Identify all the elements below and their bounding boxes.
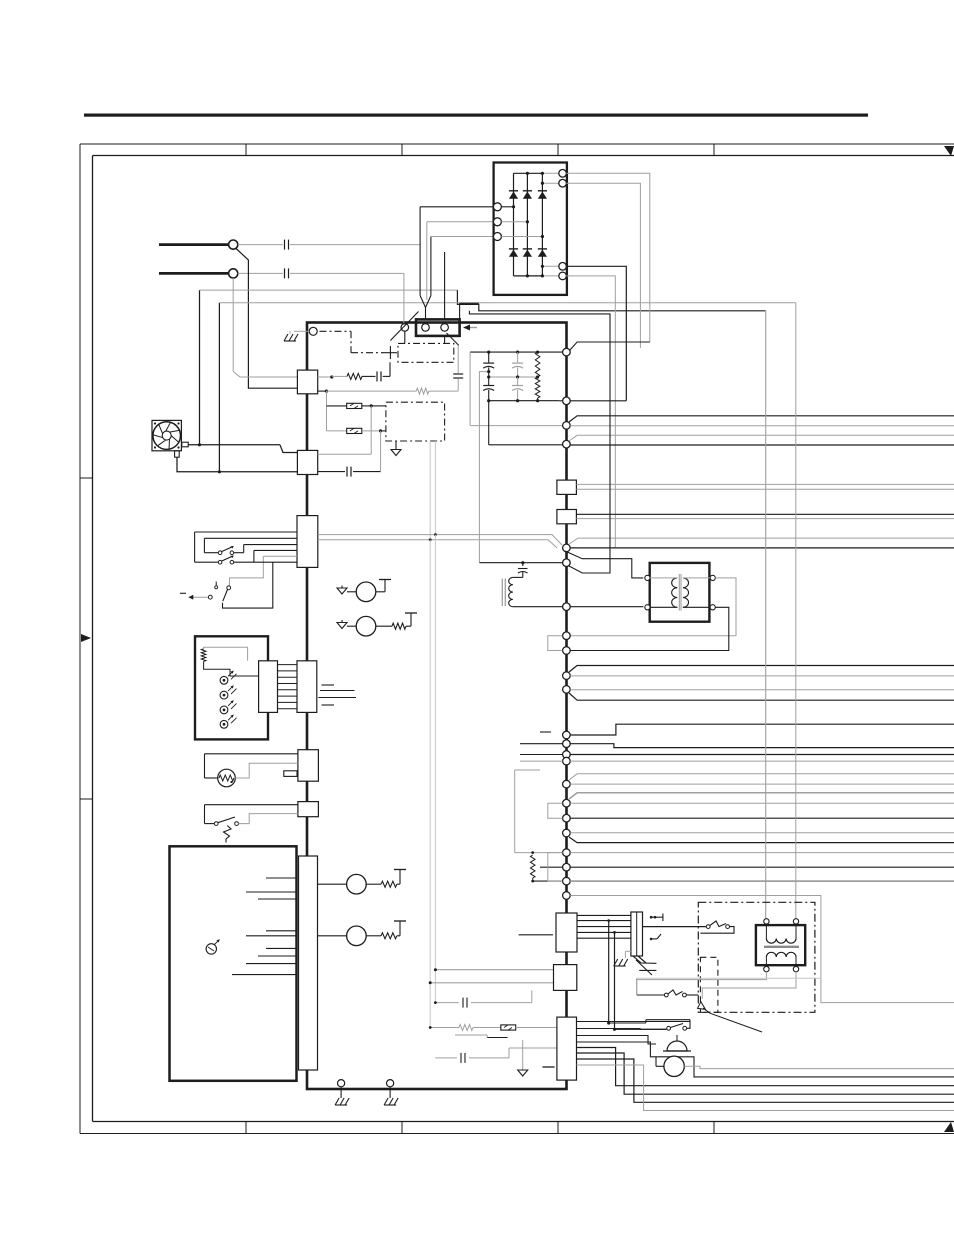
wire AC2 drop to relay bbox=[403, 273, 405, 323]
diode D1 bbox=[509, 191, 518, 199]
T5002 pin1 bbox=[645, 575, 677, 580]
wire P2 loop bbox=[570, 400, 626, 402]
border tick bottom bbox=[245, 1122, 247, 1134]
wire P3a bbox=[569, 416, 954, 422]
dashed box RL drive bbox=[398, 343, 454, 362]
wire M4 right bbox=[366, 921, 406, 939]
resistor R5001 bbox=[535, 352, 540, 377]
pin P19 bbox=[563, 829, 571, 837]
wire buzz feed bbox=[577, 1036, 657, 1045]
wire P5b bbox=[570, 547, 954, 549]
fan corner screws bbox=[154, 422, 180, 448]
border tick top bbox=[245, 144, 247, 156]
wire P19a bbox=[570, 832, 954, 834]
wire M1 right bbox=[376, 580, 391, 592]
arrow relay actuate bbox=[463, 325, 477, 331]
wire S1a bbox=[576, 483, 954, 485]
relay RL5001 bbox=[416, 319, 460, 336]
wire B+ top rail bbox=[470, 351, 562, 354]
connector CN5004 bbox=[631, 912, 643, 956]
wire relay pin2 drop bbox=[445, 252, 459, 346]
bridge DC pin 1 bbox=[559, 170, 567, 178]
wire buzz top bbox=[609, 1020, 690, 1023]
wire bus B vertical bbox=[218, 303, 220, 472]
dash-dot box degauss bbox=[698, 902, 815, 1012]
wire AC1 right bbox=[238, 244, 421, 246]
switch S5001 bbox=[643, 921, 735, 933]
wire cn out2 bbox=[577, 1028, 667, 1031]
wire drop a bbox=[434, 535, 436, 1003]
wire sb2 bbox=[429, 981, 557, 984]
connector CN5005 bbox=[556, 913, 577, 952]
wire bus A step bbox=[457, 290, 765, 311]
T5001 pin4 bbox=[793, 957, 798, 972]
bridge AC pin 2 bbox=[493, 218, 529, 226]
capacitor C5005 bbox=[513, 563, 528, 578]
border tick bottom bbox=[401, 1122, 403, 1134]
wire T5001 out3 bbox=[637, 972, 767, 995]
capacitor C-AC1 bbox=[283, 239, 290, 250]
connector CN105 bbox=[298, 750, 319, 782]
wire relay coil drop bbox=[404, 331, 406, 343]
border arrow left bbox=[81, 634, 91, 642]
wire P1 loop bbox=[570, 342, 650, 350]
fan terminal bottom bbox=[175, 451, 180, 457]
wire P13 bbox=[570, 744, 954, 748]
motor M2 bbox=[356, 616, 376, 636]
wire bridge out4 bbox=[566, 276, 615, 548]
fusible resistor FR101 bbox=[327, 403, 386, 408]
T5001 secondary bbox=[766, 952, 796, 957]
wire P6 loop bbox=[469, 311, 610, 573]
diode D6 bbox=[538, 249, 547, 257]
wire bridge pin1 h bbox=[420, 206, 493, 208]
pin P18 bbox=[548, 803, 570, 822]
wire SSW top bbox=[205, 805, 298, 824]
wire AC2 right bbox=[238, 272, 404, 274]
wire feeder 2 bbox=[795, 303, 797, 922]
wire h2 bbox=[577, 1053, 954, 1094]
motor M1 bbox=[356, 582, 376, 602]
bridge bottom bar bbox=[514, 274, 559, 277]
CN5004 arm bbox=[636, 960, 656, 975]
cap bank mid bar bbox=[487, 375, 539, 378]
wire P4b bbox=[570, 444, 954, 446]
nc stub 3 bbox=[318, 697, 356, 699]
T5002 core bbox=[679, 574, 681, 611]
motor M3 bbox=[318, 874, 367, 894]
earth CN5004 bbox=[614, 951, 631, 966]
ground IC101 bbox=[391, 441, 401, 456]
wire sb6 bbox=[435, 1057, 457, 1059]
capacitor X cross bbox=[384, 346, 397, 359]
wire arrow stub bbox=[188, 595, 208, 600]
pin P4 bbox=[563, 440, 571, 448]
ground pin G1 bbox=[335, 1080, 349, 1105]
wire P14 bbox=[570, 754, 954, 756]
motor M4 bbox=[318, 926, 367, 946]
switch S5002 bbox=[637, 990, 699, 997]
wire P10a bbox=[569, 666, 954, 673]
border tick bottom bbox=[557, 1122, 559, 1134]
wire bridge pin wires down bbox=[420, 207, 431, 300]
wire CN103 link a bbox=[318, 533, 562, 545]
pin P14 bbox=[520, 751, 570, 759]
fan frame bbox=[152, 420, 181, 450]
wire P12 bbox=[570, 724, 954, 735]
wire S2a bbox=[576, 513, 954, 515]
connector CN5002 bbox=[554, 965, 577, 991]
pin P5 bbox=[563, 544, 571, 552]
nc stub 4 bbox=[322, 704, 335, 706]
T5002 pin2 bbox=[645, 605, 677, 610]
connector CN107 tall bbox=[299, 856, 318, 1070]
inductor L5001 bbox=[509, 577, 513, 606]
connector CN5003 bbox=[557, 1017, 577, 1080]
LED D104 bbox=[220, 715, 236, 728]
wire h1 bbox=[577, 1048, 954, 1086]
wire SSW out bbox=[238, 814, 298, 824]
bridge pin - h bbox=[541, 265, 559, 268]
wire swb row2 bbox=[204, 538, 297, 552]
square pad S1 bbox=[557, 480, 577, 494]
T5001 primary bbox=[766, 939, 796, 944]
motor M5 loop bbox=[577, 1042, 954, 1077]
stub plug a bbox=[650, 914, 663, 922]
wire sb5 bbox=[455, 1035, 508, 1038]
arrow plug into relay bbox=[420, 296, 431, 320]
capacitor C102 bbox=[453, 345, 463, 391]
pin P2 bbox=[559, 397, 570, 405]
wire P10b bbox=[570, 675, 954, 677]
pin bracket P8-P9 bbox=[548, 636, 563, 651]
wire bridge pin3 h bbox=[431, 236, 493, 238]
border arrow top-right bbox=[944, 146, 954, 156]
diode D4 bbox=[509, 249, 518, 257]
dash link from pin bbox=[320, 331, 385, 352]
transformer T5001 outline bbox=[756, 925, 805, 965]
motor M5 bbox=[656, 1056, 684, 1076]
wire S2b bbox=[576, 518, 954, 520]
pin P11 bbox=[563, 686, 571, 694]
stub mark bbox=[542, 1066, 554, 1068]
vert feeds bbox=[607, 919, 616, 1031]
wire relay diag left bbox=[390, 312, 418, 341]
wire P6 in bbox=[480, 561, 563, 564]
T5002 pin4 bbox=[683, 605, 715, 610]
wire grey bracket bbox=[515, 770, 540, 853]
pin P21 bbox=[540, 863, 570, 871]
wire P5 to T bbox=[565, 551, 643, 578]
AC line L (hot) bbox=[159, 243, 229, 246]
wire TH out bbox=[235, 763, 283, 778]
wire P20 bbox=[570, 852, 954, 854]
T5001 core bbox=[764, 946, 799, 948]
wire feeder 1 bbox=[765, 310, 767, 921]
fusible resistor FR102 bbox=[327, 428, 386, 433]
bridge pin + to AC3 bbox=[541, 182, 559, 185]
LED D102 bbox=[220, 686, 236, 699]
cap bank bottom bar bbox=[487, 399, 559, 402]
wire P16a bbox=[569, 774, 954, 780]
wire P23 bbox=[570, 896, 954, 1003]
wire B+ to P3 bbox=[470, 352, 562, 426]
capacitor C5001 bbox=[483, 352, 494, 377]
capacitor C5002 bbox=[512, 352, 523, 377]
capacitor C-AC2 bbox=[283, 268, 290, 279]
wire CN103 link b bbox=[318, 538, 557, 548]
pin P7 bbox=[563, 603, 571, 611]
wire to fuse rows bbox=[326, 391, 328, 431]
pin P9 bbox=[563, 647, 571, 655]
wire bus A vertical bbox=[199, 290, 201, 445]
border arrow bottom-right bbox=[944, 1122, 954, 1132]
dashed box inner bbox=[700, 957, 718, 1012]
switch S104 bbox=[205, 817, 239, 825]
capacitor C5007 bbox=[461, 1048, 557, 1063]
ground M1 bbox=[337, 586, 356, 595]
wire P18 bbox=[570, 817, 954, 819]
wire T5002 out1 bbox=[570, 578, 736, 636]
T5001 pin2 bbox=[793, 919, 798, 939]
wire P7 bbox=[513, 606, 644, 608]
relay coil pin bbox=[401, 324, 409, 332]
resistor R5002 bbox=[535, 377, 540, 401]
wire P11a bbox=[570, 689, 954, 691]
wire AC1 diagonal bbox=[236, 248, 298, 388]
pin P3 bbox=[563, 422, 571, 430]
AC inlet pin 2 bbox=[229, 269, 238, 278]
wire TH top bbox=[205, 754, 298, 778]
square pad S2 bbox=[557, 510, 577, 524]
wire T5001 out4 bbox=[702, 972, 796, 999]
wire P17b bbox=[570, 802, 954, 804]
mechanism block outline bbox=[170, 846, 297, 1081]
bridge rectifier D5001 outline bbox=[494, 163, 567, 295]
stub CN5005 left bbox=[519, 934, 553, 936]
wire bridge out1 bbox=[566, 173, 649, 342]
wire AC2 drop to CN101 bbox=[233, 278, 297, 377]
border tick top bbox=[713, 144, 715, 156]
wire M3 right bbox=[366, 870, 406, 888]
wire L-line bbox=[318, 390, 417, 393]
wire swb row6 bbox=[234, 561, 297, 563]
capacitor C103 bbox=[347, 431, 381, 477]
bridge diode columns bbox=[514, 173, 543, 276]
pin P8 bbox=[563, 632, 571, 640]
wire R101 feed bbox=[318, 375, 334, 378]
border tick left bbox=[80, 477, 93, 479]
relay contact pin 1 bbox=[422, 324, 430, 332]
wire M5 b bbox=[684, 1066, 954, 1068]
CN5004 hatch bbox=[633, 956, 656, 963]
wire fan lead 1 bbox=[188, 443, 297, 452]
switch S101 bbox=[218, 546, 233, 554]
pin P13 bbox=[520, 740, 570, 748]
T5001 pin3 bbox=[764, 957, 769, 972]
T5002 secondary bbox=[683, 578, 689, 607]
LED D103 bbox=[220, 700, 236, 713]
wire fan lead 2 bbox=[177, 457, 297, 473]
mech icon bbox=[206, 940, 219, 955]
border tick bottom bbox=[713, 1122, 715, 1134]
pin P17 bbox=[563, 799, 571, 807]
stub plug b bbox=[650, 934, 661, 940]
wire P11b bbox=[569, 693, 954, 700]
wire CN5004 in bbox=[577, 915, 631, 938]
wire grey right frame bbox=[637, 978, 821, 995]
wire P5a bbox=[569, 538, 954, 544]
T5002 primary bbox=[672, 578, 678, 607]
ground sb bbox=[518, 1040, 528, 1076]
capacitor C5004 bbox=[512, 377, 523, 401]
arrow to coil bbox=[698, 1002, 763, 1032]
stub mark left bbox=[180, 592, 186, 594]
connector CN106 bbox=[298, 802, 319, 817]
diode D2 bbox=[523, 191, 532, 199]
pin P23 bbox=[563, 892, 571, 900]
resistor R-sense bbox=[530, 855, 535, 882]
wire P21 bbox=[570, 866, 954, 868]
wire h3 bbox=[577, 1059, 954, 1102]
bridge top bar bbox=[514, 172, 559, 175]
wire CN102 pin1 up bbox=[318, 406, 372, 454]
wire mid to P6 bbox=[479, 370, 490, 563]
wire P17a bbox=[569, 793, 954, 799]
mech pin stubs bbox=[232, 878, 297, 975]
wire M2 right bbox=[376, 613, 417, 629]
resistor R102 bbox=[416, 388, 458, 394]
resistor R5003 bbox=[459, 1025, 501, 1031]
AC line N bbox=[159, 272, 229, 275]
bridge DC pin 4 bbox=[559, 272, 567, 280]
earth ground near entry bbox=[284, 331, 309, 341]
capacitor C101 bbox=[377, 362, 390, 381]
wire P4a bbox=[569, 435, 954, 441]
pin P15 bbox=[520, 757, 570, 765]
wire swb row3 bbox=[234, 545, 297, 553]
wire h4 bbox=[577, 1065, 954, 1111]
pin P10 bbox=[563, 672, 571, 680]
ground pin G2 bbox=[384, 1080, 398, 1105]
nc stub 2 bbox=[320, 690, 355, 692]
terminal tab bbox=[284, 763, 298, 776]
wire sb1 bbox=[434, 968, 557, 971]
border tick top bbox=[557, 144, 559, 156]
pin P20 bbox=[515, 849, 571, 857]
wire P3b bbox=[570, 425, 954, 427]
nc stub 1 bbox=[322, 684, 335, 686]
LED board outline bbox=[195, 636, 268, 739]
pin P1 bbox=[563, 348, 571, 356]
connector CN104 half B bbox=[297, 661, 317, 713]
connector CN101 bbox=[297, 370, 317, 394]
spring squiggle bbox=[224, 826, 232, 843]
LED D101 bbox=[220, 671, 236, 684]
wire relay right riser bbox=[460, 303, 479, 319]
T5001 pin1 bbox=[764, 919, 769, 939]
diode D5 bbox=[523, 249, 532, 257]
connector CN104 half A bbox=[259, 661, 278, 713]
wire P19b bbox=[569, 837, 954, 843]
transformer T5002 outline bbox=[650, 563, 710, 622]
pin P16 bbox=[563, 780, 571, 788]
AC inlet pin 1 bbox=[229, 240, 238, 249]
wire twin drop bbox=[430, 441, 435, 541]
wire swb row5 bbox=[230, 556, 298, 585]
wire bridge out2 bbox=[566, 183, 640, 348]
dashed box IC101 bbox=[386, 402, 445, 441]
wire T5002 out2 bbox=[570, 607, 729, 650]
capacitor C5006 bbox=[463, 990, 532, 1007]
wire sb4 bbox=[429, 1026, 459, 1029]
capacitor C5003 bbox=[483, 377, 494, 401]
wire drop b bbox=[429, 540, 431, 1028]
wire CN102 pin2 bbox=[318, 471, 345, 473]
T5002 pin3 bbox=[683, 575, 715, 580]
connector CN102 bbox=[297, 450, 317, 474]
main board outline bbox=[307, 323, 567, 1090]
switch S5003 bbox=[615, 1020, 691, 1031]
buzzer BZ5001 bbox=[663, 1035, 691, 1051]
thermistor TH101 bbox=[205, 769, 236, 787]
border tick top bbox=[401, 144, 403, 156]
bridge AC pin 1 bbox=[493, 203, 515, 211]
bridge DC pin 2 bbox=[559, 179, 567, 187]
wire swb row4 bbox=[254, 550, 297, 562]
wire P15 bbox=[570, 760, 954, 762]
connector CN103 bbox=[297, 516, 318, 568]
outer border frame bbox=[80, 144, 954, 1134]
border tick left bbox=[80, 798, 93, 800]
bridge AC pin 3 bbox=[493, 233, 544, 241]
fan blades bbox=[153, 422, 181, 450]
wire S1b bbox=[576, 488, 954, 490]
wire sb3 bbox=[434, 1001, 459, 1004]
inner border frame bbox=[93, 156, 954, 1122]
wire bridge pin2 h bbox=[427, 221, 493, 223]
relay contact pin 2 bbox=[441, 324, 449, 332]
wire cn out1 bbox=[577, 1021, 691, 1023]
pin P12 bbox=[540, 731, 570, 739]
wire bridge out3 bbox=[566, 266, 626, 401]
resistor R101 bbox=[332, 373, 376, 379]
ground M2 bbox=[337, 620, 356, 629]
wire P22 bbox=[570, 880, 954, 882]
bridge DC pin 3 bbox=[559, 263, 567, 271]
node board entry bbox=[309, 327, 317, 335]
wire P16b bbox=[570, 783, 954, 785]
ribbon wires bbox=[278, 665, 298, 709]
fan terminal right bbox=[182, 442, 188, 447]
fusible resistor FR5001 bbox=[501, 1025, 557, 1030]
switch S102 bbox=[218, 556, 233, 564]
page title rule bbox=[84, 114, 868, 117]
pin P22 bbox=[533, 853, 571, 885]
wire bank to P4 bbox=[489, 401, 563, 445]
resistor R-LED bbox=[201, 649, 206, 662]
wire bus B horizontal bbox=[219, 302, 795, 304]
wire S103 out bbox=[223, 562, 273, 608]
wire bus A horizontal bbox=[200, 289, 458, 291]
diode D3 bbox=[538, 191, 547, 199]
wire LED feed bbox=[204, 647, 259, 676]
wire swb row1 bbox=[195, 532, 297, 562]
switch S103 bbox=[208, 582, 230, 602]
pin P6 bbox=[563, 559, 571, 567]
inductor core bbox=[502, 579, 505, 607]
